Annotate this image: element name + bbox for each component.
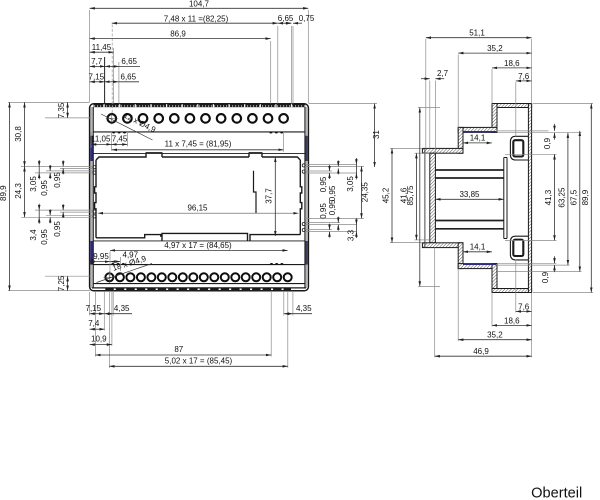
svg-text:85,75: 85,75 bbox=[406, 185, 415, 206]
dim 96,15 bbox=[98, 204, 299, 214]
svg-text:3,4: 3,4 bbox=[29, 229, 38, 241]
svg-text:4,35: 4,35 bbox=[114, 304, 130, 313]
dim 7,6 bottom bbox=[516, 302, 532, 311]
dim 0,9 top bbox=[543, 124, 555, 149]
dim 7,7 bbox=[90, 57, 105, 66]
lower latch pocket inner bbox=[513, 240, 523, 256]
middle opening right edge with notches bbox=[300, 160, 302, 235]
svg-text:7,6: 7,6 bbox=[518, 72, 530, 81]
interior step feature bbox=[254, 171, 257, 213]
small wall holes left upper pair bbox=[93, 164, 306, 232]
svg-text:0,95: 0,95 bbox=[319, 203, 328, 219]
upper ledge section bbox=[422, 148, 463, 153]
svg-text:86,9: 86,9 bbox=[170, 30, 186, 39]
dim 7,35 bbox=[57, 102, 68, 118]
ext centerline 112.5 dashed bbox=[111, 25, 113, 115]
top band bottom line bbox=[93, 131, 305, 133]
svg-text:0,95: 0,95 bbox=[328, 185, 337, 201]
svg-text:96,15: 96,15 bbox=[187, 204, 208, 213]
left wall fill bbox=[90, 107, 93, 288]
svg-text:18,6: 18,6 bbox=[504, 59, 520, 68]
dim 37,7 bbox=[265, 157, 276, 236]
ext line 270.7 bbox=[270, 41, 272, 104]
middle opening top edge bbox=[96, 154, 300, 160]
svg-text:0,95: 0,95 bbox=[53, 221, 62, 237]
dim 0,95 r1 bbox=[319, 165, 330, 192]
svg-text:9,95: 9,95 bbox=[93, 252, 109, 261]
ext verticals above side view bbox=[425, 39, 427, 148]
svg-text:45,2: 45,2 bbox=[381, 187, 390, 203]
dim 86,9 bbox=[90, 30, 271, 39]
right wall section bbox=[528, 104, 531, 293]
svg-text:0,95: 0,95 bbox=[328, 199, 337, 215]
lower step bar section bbox=[458, 264, 497, 269]
dim 18,6 bottom bbox=[492, 316, 532, 325]
dim 14,1 top bbox=[463, 134, 492, 143]
ext line dark 104.6 bbox=[104, 57, 106, 104]
right wall dark segment lower bbox=[305, 241, 308, 265]
dim 46,9 bbox=[435, 347, 532, 356]
bottom terminal hole row (18 x D4,9) bbox=[105, 273, 291, 281]
svg-text:11,05: 11,05 bbox=[91, 135, 111, 144]
ext line 113.5 bbox=[113, 48, 115, 104]
svg-text:11,45: 11,45 bbox=[92, 43, 112, 52]
lower latch pocket outer bbox=[510, 236, 528, 260]
dim 24,3 bbox=[14, 166, 25, 217]
dim 7,6 top bbox=[516, 72, 532, 81]
svg-text:14,1: 14,1 bbox=[470, 243, 486, 252]
bottom band top line bbox=[93, 264, 305, 266]
blue step edge lower bbox=[463, 263, 496, 265]
svg-text:3,3: 3,3 bbox=[347, 229, 356, 241]
svg-text:7,45: 7,45 bbox=[112, 135, 128, 144]
pcb rail upper pair bbox=[435, 169, 503, 171]
dim 0,95 d bbox=[53, 204, 63, 237]
pcb rail lower pair bbox=[435, 220, 503, 222]
dim 41,3 bbox=[544, 154, 555, 240]
dim 33,85 bbox=[435, 190, 503, 199]
left wall blue segment upper bbox=[90, 144, 93, 162]
dim 89,9 bbox=[0, 102, 10, 290]
svg-text:24,3: 24,3 bbox=[14, 183, 23, 199]
dim 7,45 inside bbox=[112, 135, 128, 145]
lower step vertical section bbox=[492, 264, 497, 293]
left wall blue segment lower bbox=[90, 241, 93, 259]
dim 67,5 bbox=[569, 131, 580, 272]
svg-text:4,97 x 17 = (84,65): 4,97 x 17 = (84,65) bbox=[164, 241, 232, 250]
dim 3,4 bbox=[29, 204, 39, 241]
svg-text:35,2: 35,2 bbox=[487, 44, 503, 53]
ext lines left side bbox=[8, 101, 90, 103]
svg-text:0,9: 0,9 bbox=[541, 271, 550, 283]
svg-text:67,5: 67,5 bbox=[569, 189, 578, 205]
svg-text:7,7: 7,7 bbox=[91, 57, 103, 66]
dim 3,05 right bbox=[346, 158, 357, 192]
dim 51,1 bbox=[426, 29, 532, 38]
first bottom hole centermark bbox=[103, 271, 115, 283]
dim 4,97 x 17 = (84,65) bbox=[110, 241, 288, 251]
lower ledge section bbox=[422, 243, 463, 248]
svg-text:87: 87 bbox=[174, 345, 183, 354]
ledge line upper bbox=[93, 153, 305, 155]
svg-text:0,75: 0,75 bbox=[299, 14, 315, 23]
dim 6,65 row3 bbox=[105, 73, 140, 82]
dim 31 bbox=[372, 104, 381, 168]
ledge line lower bbox=[93, 240, 305, 242]
svg-text:0,95: 0,95 bbox=[40, 180, 49, 196]
top wall section bbox=[492, 104, 532, 108]
svg-text:7,6: 7,6 bbox=[518, 302, 530, 311]
dim 0,95 r3 bbox=[319, 203, 330, 238]
dim 11 x 7,45 = (81,95) bbox=[112, 132, 284, 152]
left wall dark segment lower bbox=[90, 259, 93, 265]
dim 63,25 bbox=[557, 133, 568, 265]
cavity right wall lines bbox=[504, 158, 507, 239]
right wall fill bbox=[305, 107, 308, 288]
dim 35,2 top bbox=[458, 44, 531, 53]
svg-text:24,35: 24,35 bbox=[361, 182, 370, 203]
svg-text:7,48 x 11 =(82,25): 7,48 x 11 =(82,25) bbox=[164, 15, 229, 24]
dim 11,45 bbox=[90, 43, 114, 52]
right wall dark segment upper bbox=[305, 136, 308, 161]
dim 5,02 x 17 = (85,45) bbox=[109, 357, 287, 367]
ext line 277.8 bbox=[277, 26, 279, 104]
svg-text:41,3: 41,3 bbox=[544, 189, 553, 205]
bottom vent dashes bbox=[105, 288, 291, 291]
svg-text:3,05: 3,05 bbox=[29, 176, 38, 192]
dim 9,95 bbox=[89, 252, 110, 262]
svg-text:7,4: 7,4 bbox=[88, 319, 100, 328]
dim 6,65 top right bbox=[278, 14, 294, 23]
dim 41,6 bbox=[400, 153, 417, 240]
svg-text:0,9: 0,9 bbox=[543, 137, 552, 149]
svg-text:18,6: 18,6 bbox=[504, 316, 520, 325]
svg-text:37,7: 37,7 bbox=[265, 188, 274, 204]
svg-text:6,65: 6,65 bbox=[121, 57, 137, 66]
svg-text:0,95: 0,95 bbox=[319, 176, 328, 192]
dim 30,8 bbox=[14, 102, 25, 166]
middle opening left edge with notches bbox=[95, 160, 96, 238]
middle opening bottom edge with platforms bbox=[96, 233, 300, 241]
dim 18,6 top bbox=[492, 59, 532, 68]
dim 6,65 row2 bbox=[105, 57, 140, 66]
dim 89,9 right bbox=[581, 104, 592, 293]
svg-text:0,95: 0,95 bbox=[40, 229, 49, 245]
ext line pair 291.3/292.9 bbox=[290, 26, 292, 104]
upper latch pocket inner bbox=[513, 140, 523, 156]
dim 7,48 x 11 =(82,25) bbox=[112, 15, 278, 24]
svg-text:0,95: 0,95 bbox=[53, 172, 62, 188]
svg-text:3,05: 3,05 bbox=[346, 176, 355, 192]
dim 4,35 bottom right bbox=[284, 304, 312, 314]
ext lines below view bbox=[89, 292, 91, 316]
dim 85,75 bbox=[406, 108, 420, 287]
dim 3,05 bbox=[29, 160, 39, 192]
scallop notches under top band line bbox=[112, 132, 283, 134]
svg-text:7,25: 7,25 bbox=[57, 275, 66, 291]
upper vertical bar section bbox=[458, 127, 463, 153]
left wall section bbox=[430, 153, 436, 243]
dim 7,25 bbox=[57, 275, 68, 291]
svg-text:35,2: 35,2 bbox=[487, 331, 503, 340]
svg-text:10,9: 10,9 bbox=[91, 335, 107, 344]
upper latch pocket outer bbox=[510, 136, 528, 160]
ext line right outer bbox=[307, 10, 309, 103]
right wall inner line bbox=[304, 107, 306, 288]
svg-text:89,9: 89,9 bbox=[0, 185, 8, 201]
svg-text:4,97: 4,97 bbox=[123, 251, 139, 260]
svg-text:5,02 x 17 = (85,45): 5,02 x 17 = (85,45) bbox=[165, 357, 233, 366]
svg-text:11 x 7,45 = (81,95): 11 x 7,45 = (81,95) bbox=[165, 139, 232, 148]
dim 0,95 b bbox=[53, 160, 63, 187]
dim 35,2 bottom bbox=[458, 331, 531, 340]
top vent band bbox=[94, 104, 306, 107]
svg-text:89,9: 89,9 bbox=[581, 189, 590, 205]
dim 3,3 right bbox=[347, 218, 357, 241]
svg-text:7,15: 7,15 bbox=[86, 304, 102, 313]
leader 12 x D4,9 bbox=[101, 111, 158, 140]
dim 0,95 r4 bbox=[328, 199, 338, 230]
upper step bar section bbox=[458, 127, 497, 132]
svg-text:6,65: 6,65 bbox=[278, 14, 294, 23]
scallop notches above bottom band line bbox=[111, 263, 283, 265]
ext lines right side bbox=[305, 163, 357, 165]
ledge tip outer line bbox=[424, 148, 426, 247]
dim 4,35 bottom left bbox=[104, 304, 132, 314]
dim 7,4 bbox=[88, 319, 104, 329]
dim 0,75 bbox=[285, 14, 315, 23]
svg-text:7,15: 7,15 bbox=[89, 73, 105, 82]
dim 7,15 bbox=[89, 73, 105, 82]
dim 14,1 bottom bbox=[463, 243, 492, 252]
bottom wall section bbox=[492, 289, 532, 293]
svg-text:6,65: 6,65 bbox=[121, 73, 137, 82]
left wall dark segment upper bbox=[90, 136, 93, 144]
svg-text:63,25: 63,25 bbox=[557, 187, 566, 208]
tab outlines on upper ledge bbox=[146, 153, 262, 154]
right ext lines bbox=[497, 130, 549, 132]
left ext lines bbox=[390, 147, 422, 149]
dim 0,95 a bbox=[40, 165, 50, 196]
upper step vertical section bbox=[492, 104, 497, 133]
svg-text:33,85: 33,85 bbox=[459, 190, 480, 199]
svg-text:51,1: 51,1 bbox=[469, 29, 485, 38]
svg-text:7,35: 7,35 bbox=[57, 102, 66, 118]
svg-text:14,1: 14,1 bbox=[470, 134, 486, 143]
svg-text:46,9: 46,9 bbox=[473, 347, 489, 356]
dim 0,95 r2 bbox=[328, 160, 338, 201]
svg-text:4,35: 4,35 bbox=[296, 304, 312, 313]
dim 0,9 bottom bbox=[541, 256, 555, 283]
svg-text:31: 31 bbox=[372, 130, 381, 139]
svg-text:2,7: 2,7 bbox=[437, 69, 449, 78]
enclosure outer body outline bbox=[90, 104, 309, 291]
dim 2,7 bbox=[421, 69, 449, 79]
bottom band bottom line bbox=[93, 283, 305, 285]
dim 0,95 c bbox=[40, 209, 50, 244]
leader 18 x D4,9 bbox=[97, 254, 153, 283]
ext line 118.9 bbox=[118, 62, 120, 104]
ext line left outer bbox=[89, 10, 91, 102]
dim 45,2 bbox=[381, 148, 392, 242]
dim 7,15 bottom bbox=[86, 304, 105, 314]
lower vertical bar section bbox=[458, 243, 463, 269]
dim 11,05 inside bbox=[91, 132, 127, 151]
svg-text:104,7: 104,7 bbox=[189, 0, 210, 9]
first top hole centermark bbox=[106, 112, 118, 124]
ext verticals below side view bbox=[434, 248, 436, 358]
top terminal hole row (12 x D4,9) bbox=[108, 114, 288, 123]
blue step edge upper bbox=[463, 131, 496, 133]
svg-text:30,8: 30,8 bbox=[14, 126, 23, 142]
bottom edge line bbox=[92, 287, 306, 289]
svg-text:Oberteil: Oberteil bbox=[531, 486, 582, 500]
dim 24,35 bbox=[361, 166, 370, 218]
dim 4,97 bbox=[110, 251, 139, 278]
left wall inner line bbox=[92, 107, 94, 288]
dim 104,7 bbox=[90, 0, 309, 9]
dim 87 bbox=[95, 345, 271, 355]
dim 10,9 bbox=[90, 335, 112, 345]
